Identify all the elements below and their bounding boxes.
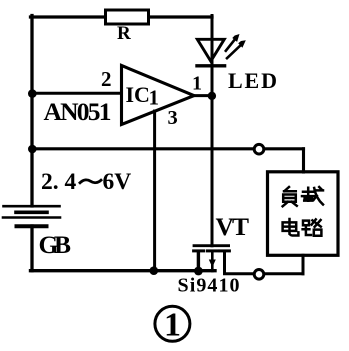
svg-text:6V: 6V: [103, 169, 132, 195]
svg-text:LED: LED: [228, 68, 277, 93]
svg-text:3: 3: [168, 107, 178, 129]
svg-text:AN051: AN051: [44, 97, 112, 126]
svg-text:VT: VT: [216, 212, 250, 241]
svg-text:R: R: [117, 23, 131, 44]
svg-text:2. 4: 2. 4: [41, 169, 77, 195]
svg-text:IC: IC: [126, 82, 150, 107]
svg-text:1: 1: [164, 306, 181, 343]
svg-text:1: 1: [192, 73, 202, 95]
svg-text:2: 2: [101, 67, 112, 91]
svg-text:Si9410: Si9410: [178, 275, 240, 297]
svg-text:GB: GB: [39, 230, 72, 259]
svg-text:1: 1: [149, 86, 160, 110]
